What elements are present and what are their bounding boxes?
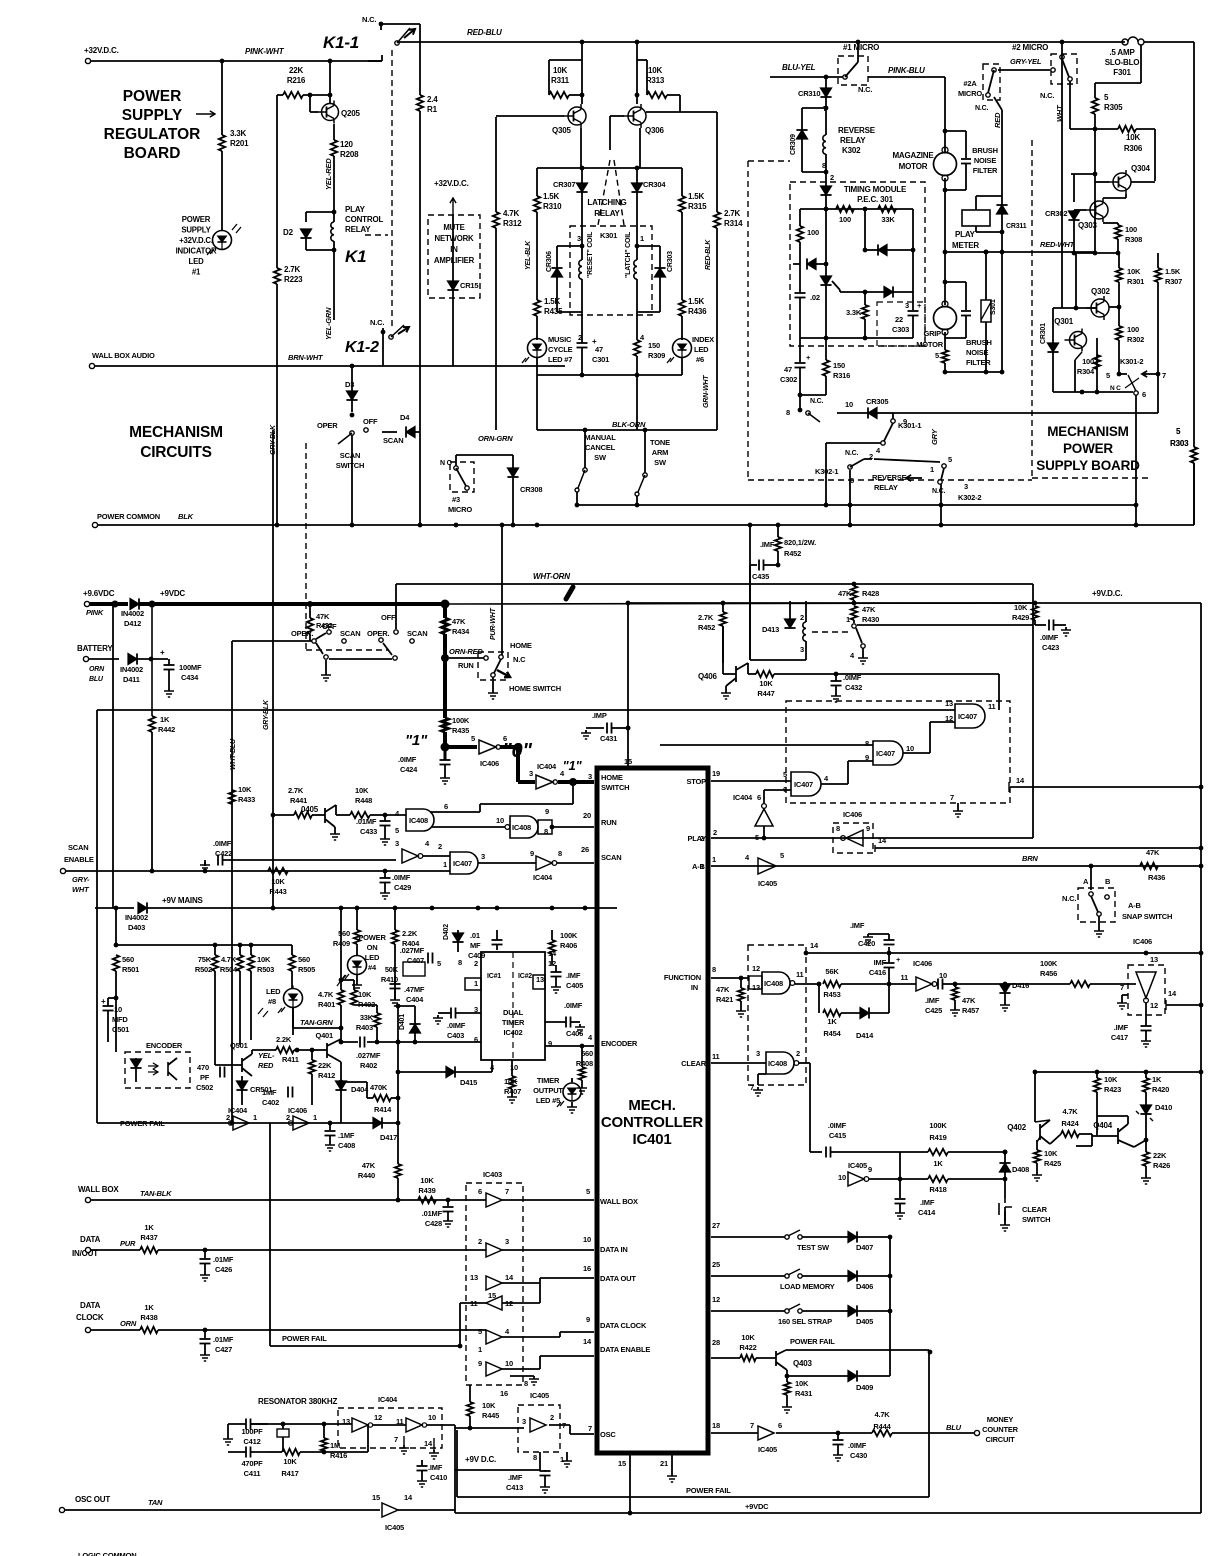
svg-text:R436: R436 <box>1148 873 1165 882</box>
svg-text:C431: C431 <box>600 734 617 743</box>
node +32VDC input terminal <box>85 58 90 63</box>
svg-text:11: 11 <box>988 702 996 711</box>
switch bank link <box>329 658 392 660</box>
svg-text:MICRO: MICRO <box>958 89 982 98</box>
svg-text:Q402: Q402 <box>1007 1123 1027 1132</box>
resistor R428 47K <box>851 586 857 600</box>
transistor Q303 <box>1090 201 1108 219</box>
svg-text:YEL-RED: YEL-RED <box>324 158 333 190</box>
svg-text:33K: 33K <box>360 1013 374 1022</box>
svg-text:C413: C413 <box>506 1483 523 1492</box>
svg-text:LOGIC COMMON: LOGIC COMMON <box>78 1551 136 1556</box>
svg-text:IC406: IC406 <box>1133 937 1152 946</box>
svg-text:.47MF: .47MF <box>404 985 425 994</box>
svg-text:R501: R501 <box>122 965 139 974</box>
svg-text:9: 9 <box>478 1359 482 1368</box>
svg-text:+: + <box>101 997 106 1006</box>
svg-text:HOME SWITCH: HOME SWITCH <box>509 684 561 693</box>
wire Q402 collector up <box>1034 1072 1036 1122</box>
resistor R302 100 <box>1118 307 1120 326</box>
wire rail 505 <box>577 504 1136 506</box>
svg-text:C409: C409 <box>468 951 485 960</box>
svg-text:IC406: IC406 <box>480 759 499 768</box>
svg-text:+9VDC: +9VDC <box>160 589 185 598</box>
svg-text:IN4002: IN4002 <box>125 913 148 922</box>
wire pin25 load memory <box>711 1275 785 1277</box>
resistor R435 1.5K <box>536 299 538 301</box>
svg-text:8: 8 <box>558 849 562 858</box>
svg-text:1.5K: 1.5K <box>688 297 705 306</box>
resistor R223 2.7K <box>274 268 280 284</box>
svg-text:BRUSH: BRUSH <box>966 338 992 347</box>
svg-text:GRY: GRY <box>930 428 939 445</box>
svg-text:K1: K1 <box>345 247 366 266</box>
svg-text:.0IMF: .0IMF <box>213 839 232 848</box>
relay K1 play control coil <box>331 222 334 241</box>
svg-text:SCAN: SCAN <box>383 436 403 445</box>
wire R447 node <box>834 672 839 677</box>
svg-text:BRUSH: BRUSH <box>972 146 998 155</box>
svg-text:10K: 10K <box>358 990 372 999</box>
svg-text:Q305: Q305 <box>552 126 572 135</box>
svg-text:RUN: RUN <box>458 661 474 670</box>
IC404 tri <box>762 804 767 809</box>
svg-text:CR306: CR306 <box>546 251 553 272</box>
svg-text:2.2K: 2.2K <box>276 1035 292 1044</box>
svg-text:PLAY: PLAY <box>687 834 706 843</box>
svg-text:R302: R302 <box>1127 335 1144 344</box>
svg-text:OPER.: OPER. <box>291 629 313 638</box>
svg-text:C425: C425 <box>925 1006 942 1015</box>
svg-text:1: 1 <box>712 855 716 864</box>
svg-text:3: 3 <box>577 234 581 243</box>
svg-text:.0IMF: .0IMF <box>398 755 417 764</box>
svg-text:R309: R309 <box>648 351 665 360</box>
svg-text:LED: LED <box>694 345 709 354</box>
svg-text:Q501: Q501 <box>230 1041 248 1050</box>
svg-text:REGULATOR: REGULATOR <box>104 126 201 143</box>
switch R430 <box>852 624 856 628</box>
wire Q304 <box>1094 129 1096 174</box>
svg-text:REVERSE: REVERSE <box>838 126 876 135</box>
svg-text:IC#1: IC#1 <box>487 973 501 980</box>
wire IC407b out to a <box>903 752 930 754</box>
svg-text:22: 22 <box>895 315 903 324</box>
svg-text:C434: C434 <box>181 673 199 682</box>
svg-text:B: B <box>1105 877 1111 886</box>
resistor R501 560 <box>113 955 119 971</box>
capacitor C426 <box>204 1250 206 1258</box>
wire IC404 out to osc gate <box>427 1424 455 1426</box>
svg-text:IC401: IC401 <box>632 1131 671 1148</box>
phase slash <box>566 587 573 599</box>
svg-text:R422: R422 <box>739 1343 756 1352</box>
svg-text:K301: K301 <box>600 231 617 240</box>
svg-text:POWER FAIL: POWER FAIL <box>282 1334 327 1343</box>
wire Q301 emitter node <box>1096 338 1098 393</box>
svg-text:14: 14 <box>404 1493 413 1502</box>
svg-text:POWER COMMON: POWER COMMON <box>97 512 160 521</box>
svg-text:N.C.: N.C. <box>975 105 988 112</box>
svg-text:R447: R447 <box>757 689 774 698</box>
svg-text:K1-1: K1-1 <box>323 33 359 52</box>
resistor R442 1K <box>151 659 153 716</box>
svg-text:POWER: POWER <box>182 215 211 224</box>
svg-text:POWER: POWER <box>358 933 386 942</box>
switch bank unit1 <box>316 633 326 639</box>
wire WHT lever <box>1069 81 1071 129</box>
switch bank unit2 <box>379 638 383 642</box>
svg-text:FILTER: FILTER <box>966 358 991 367</box>
Q403 collector line <box>786 1349 929 1351</box>
diode CR307 <box>576 183 587 192</box>
svg-text:GRY-BLK: GRY-BLK <box>263 699 270 730</box>
svg-text:CR309: CR309 <box>790 134 797 155</box>
svg-text:13: 13 <box>470 1273 478 1282</box>
svg-text:R418: R418 <box>929 1185 946 1194</box>
svg-text:Q304: Q304 <box>1131 164 1151 173</box>
svg-text:1: 1 <box>253 1113 257 1122</box>
resistor R306 10K <box>1095 128 1118 130</box>
svg-text:SLO-BLO: SLO-BLO <box>1105 58 1140 67</box>
svg-text:R434: R434 <box>452 627 470 636</box>
wire top rail red-blu <box>397 41 1125 43</box>
svg-text:2.4: 2.4 <box>427 95 438 104</box>
varistor S301 <box>984 250 989 255</box>
dashed switch link <box>306 649 389 651</box>
svg-text:.02: .02 <box>810 293 820 302</box>
svg-text:Q303: Q303 <box>1078 221 1098 230</box>
svg-text:47K: 47K <box>1146 848 1160 857</box>
svg-text:SCAN: SCAN <box>601 853 621 862</box>
svg-text:47K: 47K <box>316 612 330 621</box>
resistor R314 2.7K <box>714 212 720 228</box>
svg-text:10K: 10K <box>283 1457 297 1466</box>
transistor Q302 <box>1091 299 1109 317</box>
svg-text:14: 14 <box>583 1337 592 1346</box>
svg-text:TAN: TAN <box>148 1498 163 1507</box>
svg-text:OSC: OSC <box>600 1430 616 1439</box>
svg-text:CR302: CR302 <box>1045 209 1067 218</box>
svg-text:R313: R313 <box>646 76 665 85</box>
svg-text:10K: 10K <box>271 877 285 886</box>
resistor R503 10K <box>250 945 252 955</box>
LED #1 indicator <box>213 231 232 250</box>
svg-text:R417: R417 <box>281 1469 298 1478</box>
timing module dashed box <box>790 182 925 346</box>
svg-text:R448: R448 <box>355 796 372 805</box>
svg-text:11: 11 <box>900 973 908 982</box>
svg-text:IC405: IC405 <box>758 1445 777 1454</box>
svg-text:2.7K: 2.7K <box>724 209 741 218</box>
gate line timing <box>840 291 913 293</box>
svg-text:13: 13 <box>1150 955 1158 964</box>
svg-text:12: 12 <box>752 964 760 973</box>
svg-text:5: 5 <box>395 826 399 835</box>
svg-text:10K: 10K <box>1044 1149 1058 1158</box>
svg-text:D413: D413 <box>762 625 779 634</box>
svg-text:R436: R436 <box>688 307 707 316</box>
wire battery to bus <box>151 604 153 659</box>
svg-text:R421: R421 <box>716 995 733 1004</box>
svg-text:DATA IN: DATA IN <box>600 1245 628 1254</box>
wire Q301 emitter drop <box>1075 352 1082 360</box>
dashed box mechanism psu <box>747 161 749 480</box>
svg-text:100: 100 <box>839 215 851 224</box>
svg-text:OPER.: OPER. <box>367 629 389 638</box>
capacitor C433 <box>380 820 391 822</box>
svg-text:R444: R444 <box>873 1422 891 1431</box>
svg-text:7: 7 <box>1120 983 1124 992</box>
music cycle LED #7 <box>536 338 538 340</box>
svg-text:F301: F301 <box>1113 68 1131 77</box>
resistor R304 100 <box>1094 355 1100 369</box>
capacitor C302 47 <box>799 338 801 362</box>
diode D414 <box>841 1012 860 1014</box>
svg-text:K301-1: K301-1 <box>898 421 921 430</box>
svg-text:6: 6 <box>778 1421 782 1430</box>
svg-text:RELAY: RELAY <box>874 483 898 492</box>
svg-text:PLAY: PLAY <box>955 230 976 239</box>
svg-text:7: 7 <box>588 1424 592 1433</box>
wire x398 <box>397 1006 399 1123</box>
svg-text:C423: C423 <box>1042 643 1059 652</box>
svg-text:15: 15 <box>372 1493 380 1502</box>
resistor R454 1K loop <box>818 984 820 1013</box>
svg-text:MOTOR: MOTOR <box>899 162 928 171</box>
svg-text:LED #5: LED #5 <box>536 1096 560 1105</box>
resistor R443 10K <box>268 868 288 874</box>
svg-text:10K: 10K <box>1126 133 1140 142</box>
svg-text:50K: 50K <box>385 965 399 974</box>
svg-text:1.5K: 1.5K <box>688 192 705 201</box>
svg-text:120: 120 <box>340 140 353 149</box>
transistor Q205 <box>328 93 333 98</box>
svg-text:"1": "1" <box>405 732 428 749</box>
svg-text:7: 7 <box>950 793 954 802</box>
svg-text:CR303: CR303 <box>667 251 674 272</box>
svg-text:4.7K: 4.7K <box>1062 1107 1078 1116</box>
svg-text:LOAD MEMORY: LOAD MEMORY <box>780 1282 835 1291</box>
svg-text:R401: R401 <box>318 1000 335 1009</box>
svg-text:.01: .01 <box>470 931 480 940</box>
dashed box IC407s <box>786 701 1010 803</box>
svg-text:DATA ENABLE: DATA ENABLE <box>600 1345 650 1354</box>
svg-text:C407: C407 <box>407 956 424 965</box>
svg-text:IC404: IC404 <box>228 1106 248 1115</box>
svg-text:R452: R452 <box>784 549 801 558</box>
svg-text:STOP: STOP <box>687 777 707 786</box>
svg-text:+32V.D.C.: +32V.D.C. <box>84 46 119 55</box>
svg-text:IC407: IC407 <box>453 859 472 868</box>
svg-text:IN4002: IN4002 <box>121 609 144 618</box>
svg-text:R424: R424 <box>1061 1119 1079 1128</box>
emitter down <box>786 1370 788 1376</box>
transistor Q304 <box>1113 173 1131 191</box>
loopback 11 to power fail <box>460 1302 486 1304</box>
svg-text:27: 27 <box>712 1221 720 1230</box>
svg-text:SUPPLY: SUPPLY <box>122 107 183 124</box>
wire Q306 base net <box>610 115 624 117</box>
svg-text:WALL BOX: WALL BOX <box>600 1197 638 1206</box>
svg-text:R505: R505 <box>298 965 315 974</box>
transistor Q306 <box>628 107 646 125</box>
capacitor C429 <box>384 871 386 878</box>
svg-text:14: 14 <box>1168 989 1177 998</box>
wire 603 right <box>445 603 1033 604</box>
svg-text:IC405: IC405 <box>530 1391 549 1400</box>
wire clear out <box>798 1062 810 1064</box>
svg-text:R453: R453 <box>823 990 840 999</box>
svg-text:100K: 100K <box>560 931 578 940</box>
svg-text:CR15: CR15 <box>460 281 478 290</box>
svg-text:IC406: IC406 <box>288 1106 307 1115</box>
svg-text:MONEY: MONEY <box>987 1415 1014 1424</box>
svg-text:100PF: 100PF <box>241 1427 263 1436</box>
resistor 100 vert <box>799 209 801 226</box>
svg-text:OPER: OPER <box>317 421 338 430</box>
thick wire to pin3 <box>558 780 594 784</box>
svg-text:K1-2: K1-2 <box>345 339 379 356</box>
capacitor C430 <box>833 1439 844 1441</box>
svg-text:IC404: IC404 <box>533 873 553 882</box>
svg-text:C410: C410 <box>430 1473 447 1482</box>
resistor R403 33K <box>354 1004 377 1006</box>
svg-text:D405: D405 <box>856 1317 873 1326</box>
svg-text:R452: R452 <box>698 623 715 632</box>
svg-text:CONTROL: CONTROL <box>345 215 383 224</box>
wire long 710 rail <box>97 709 955 711</box>
svg-text:560: 560 <box>298 955 310 964</box>
svg-text:12: 12 <box>374 1413 382 1422</box>
svg-text:A-B: A-B <box>692 862 706 871</box>
mute network dashed box <box>428 215 480 298</box>
svg-text:4.7K: 4.7K <box>221 955 237 964</box>
svg-text:R1: R1 <box>427 105 438 114</box>
latch coil <box>636 253 638 260</box>
resistor R504 4.7K <box>239 945 241 955</box>
svg-text:BLU: BLU <box>89 676 104 683</box>
wire power common <box>92 522 97 527</box>
svg-text:CR301: CR301 <box>1040 323 1047 344</box>
svg-text:D414: D414 <box>856 1031 874 1040</box>
svg-text:SCAN: SCAN <box>340 451 360 460</box>
svg-text:D415: D415 <box>460 1078 477 1087</box>
svg-text:IC403: IC403 <box>483 1170 502 1179</box>
svg-text:19: 19 <box>712 769 720 778</box>
svg-text:PUR-WHT: PUR-WHT <box>490 607 497 640</box>
wire IC408a second out <box>432 826 505 828</box>
svg-text:100K: 100K <box>1040 959 1058 968</box>
svg-text:14: 14 <box>810 941 819 950</box>
resistor 100 horiz <box>836 206 854 212</box>
svg-text:C424: C424 <box>400 765 418 774</box>
svg-text:R430: R430 <box>862 615 879 624</box>
svg-text:13: 13 <box>342 1417 350 1426</box>
svg-text:K302: K302 <box>842 146 861 155</box>
svg-text:R402: R402 <box>360 1061 377 1070</box>
wire 584 through <box>852 582 857 587</box>
switch #1 micro <box>770 76 843 78</box>
svg-text:470: 470 <box>197 1063 209 1072</box>
svg-text:C427: C427 <box>215 1345 232 1354</box>
svg-text:+9V D.C.: +9V D.C. <box>465 1455 496 1464</box>
svg-text:RELAY: RELAY <box>594 209 620 218</box>
wire top right corner <box>1144 41 1194 43</box>
svg-text:MECHANISM: MECHANISM <box>129 424 223 441</box>
wire stop pin to IC407c <box>711 780 791 782</box>
wire clear top rail <box>1035 1071 1201 1073</box>
svg-text:PUR: PUR <box>120 1239 136 1248</box>
svg-text:R403: R403 <box>356 1023 373 1032</box>
svg-text:IC#2: IC#2 <box>518 973 532 980</box>
svg-text:N.C.: N.C. <box>1040 91 1054 100</box>
svg-text:2: 2 <box>478 1237 482 1246</box>
feedback wire res <box>367 1425 369 1452</box>
svg-text:2.7K: 2.7K <box>284 265 301 274</box>
wire Q306 emitter to R314 rail <box>639 128 641 168</box>
svg-text:5: 5 <box>935 351 939 360</box>
TAN-GRN rail <box>292 1008 294 1028</box>
svg-text:YEL-: YEL- <box>258 1051 275 1060</box>
diode D403 <box>95 907 134 909</box>
wire R419 right <box>948 1151 1005 1153</box>
svg-text:R314: R314 <box>724 219 743 228</box>
svg-text:CLEAR: CLEAR <box>681 1059 707 1068</box>
svg-text:3: 3 <box>395 839 399 848</box>
svg-text:OUTPUT: OUTPUT <box>533 1086 563 1095</box>
svg-text:A: A <box>1083 877 1089 886</box>
svg-text:SCAN: SCAN <box>340 629 360 638</box>
svg-text:100: 100 <box>1082 357 1094 366</box>
svg-text:2: 2 <box>438 842 442 851</box>
wire encoder pin9 <box>545 1045 594 1047</box>
svg-text:K302-2: K302-2 <box>958 493 981 502</box>
svg-text:D401: D401 <box>399 1014 406 1030</box>
svg-text:MUTE: MUTE <box>443 223 464 232</box>
diode left timing <box>799 263 801 265</box>
svg-text:3.3K: 3.3K <box>230 129 247 138</box>
svg-text:.01MF: .01MF <box>422 1209 443 1218</box>
svg-text:470K: 470K <box>370 1083 388 1092</box>
svg-text:RELAY: RELAY <box>345 225 371 234</box>
diode gate right <box>884 286 893 297</box>
svg-text:IC407: IC407 <box>794 780 813 789</box>
resistor R432 47K real <box>307 601 313 607</box>
svg-text:SCAN: SCAN <box>407 629 427 638</box>
row rail 945 <box>116 944 292 946</box>
svg-text:COUNTER: COUNTER <box>982 1425 1018 1434</box>
transistor Q301 <box>1070 332 1087 349</box>
svg-text:IC406: IC406 <box>913 959 932 968</box>
svg-text:C417: C417 <box>1111 1033 1128 1042</box>
wire K301-2 to rail <box>1135 395 1137 525</box>
svg-text:R316: R316 <box>833 371 850 380</box>
svg-text:ENCODER: ENCODER <box>146 1041 183 1050</box>
svg-text:C404: C404 <box>406 995 424 1004</box>
svg-text:SNAP SWITCH: SNAP SWITCH <box>1122 912 1172 921</box>
svg-text:WHT-BLU: WHT-BLU <box>230 738 237 770</box>
svg-text:6: 6 <box>478 1187 482 1196</box>
svg-text:WALL BOX AUDIO: WALL BOX AUDIO <box>92 351 155 360</box>
svg-text:C412: C412 <box>243 1437 260 1446</box>
svg-text:10K: 10K <box>257 955 271 964</box>
svg-text:C429: C429 <box>394 883 411 892</box>
svg-text:.IMP: .IMP <box>592 711 607 720</box>
svg-text:D410: D410 <box>1155 1103 1172 1112</box>
svg-text:PINK-BLU: PINK-BLU <box>888 66 925 75</box>
diode D409 <box>787 1375 848 1377</box>
